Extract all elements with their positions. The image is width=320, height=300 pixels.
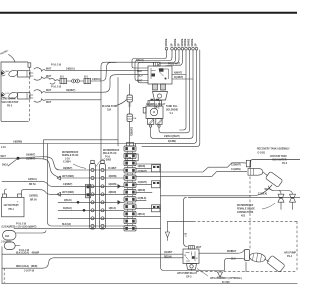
svg-text:SOLENOID: SOLENOID [166, 110, 178, 112]
arrow symbol on feed [165, 232, 169, 238]
harness bundle wire 4 [136, 50, 197, 143]
FS-3 signal wire down-left [247, 185, 272, 196]
svg-text:B-1790: B-1790 [222, 282, 230, 284]
svg-text:C1(BLK): C1(BLK) [258, 194, 267, 196]
svg-text:APS ASSEMBLY (OPTIONAL): APS ASSEMBLY (OPTIONAL) [210, 277, 242, 280]
svg-text:TB-1: TB-1 [128, 158, 134, 160]
bottom border line [2, 283, 298, 285]
aps tank box left edge [184, 201, 188, 247]
svg-text:SP: SP [196, 43, 198, 47]
svg-text:14(BLU): 14(BLU) [66, 67, 75, 70]
solenoid output wires [151, 127, 155, 138]
svg-text:HOT (RED): HOT (RED) [62, 192, 74, 194]
svg-text:RED(4): RED(4) [164, 255, 172, 258]
svg-text:16 WHT: 16 WHT [108, 168, 117, 170]
svg-text:VACUUM TANK: VACUUM TANK [270, 155, 287, 158]
aps tank box top edge [188, 196, 300, 198]
APS dashed enclosure top [168, 221, 194, 232]
svg-text:12(BLU): 12(BLU) [28, 179, 37, 181]
svg-text:IN-LINE FUSE: IN-LINE FUSE [102, 106, 118, 108]
diode symbol under relay [218, 272, 223, 277]
terminal block strip TB-1 [127, 143, 134, 147]
svg-text:4(RED): 4(RED) [138, 189, 146, 192]
right side row wires from TB-1 [136, 163, 247, 217]
wire motor2 rising to relay [46, 75, 149, 93]
right stub plug blocks [152, 165, 161, 212]
svg-text:21(WHT): 21(WHT) [138, 171, 148, 173]
APS dashed enclosure bottom [196, 271, 297, 273]
svg-text:12V BATTERY: 12V BATTERY [4, 204, 20, 207]
svg-text:18(WHT): 18(WHT) [63, 168, 73, 170]
main +12V feed wire [14, 227, 161, 229]
svg-text:11(WHT): 11(WHT) [138, 182, 147, 184]
in-line fuse chain [129, 84, 131, 95]
vacuum motor enclosure box PS-2 [1, 62, 28, 121]
strip row wires across plugs [90, 170, 125, 226]
battery negative lead down [5, 189, 7, 194]
svg-text:15(RED): 15(RED) [29, 196, 38, 198]
battery positive wire [22, 190, 90, 195]
wire 14(BRN) to terminal strip [0, 144, 136, 147]
svg-text:J-16: J-16 [65, 158, 70, 160]
svg-text:26GA: 26GA [2, 164, 8, 167]
wire curving from below to relay top level [101, 62, 154, 160]
wire 12(BLU) [2, 181, 90, 186]
relay CR-2 mount tab [153, 92, 168, 101]
spade connector wires [269, 186, 293, 194]
svg-text:HIGH WATER: HIGH WATER [272, 158, 287, 161]
pump drop wire [245, 262, 247, 272]
svg-text:14(WHT): 14(WHT) [63, 183, 73, 186]
circuit breaker stadium [3, 231, 17, 241]
svg-text:SPARE: SPARE [181, 38, 184, 46]
svg-text:9(GRN): 9(GRN) [109, 184, 117, 186]
spade crescents motor 1 [34, 68, 46, 72]
svg-text:LOW WATER: LOW WATER [2, 98, 16, 101]
svg-text:WHT: WHT [231, 251, 237, 253]
svg-text:24(BLU)(WHT): 24(BLU)(WHT) [164, 135, 180, 138]
svg-text:PS-2: PS-2 [7, 106, 13, 108]
svg-text:SP: SP [172, 43, 174, 47]
wire motor2 lower to plug vertical [46, 99, 102, 101]
wire branch down to row 226 [48, 144, 61, 227]
svg-text:APS PUMP RELAY: APS PUMP RELAY [177, 272, 198, 275]
svg-text:WHT: WHT [46, 68, 52, 70]
svg-text:FS-4: FS-4 [287, 255, 293, 258]
TB-1 label box [126, 154, 138, 161]
svg-text:GENERAL RELAY: GENERAL RELAY [146, 103, 166, 106]
svg-text:40A: 40A [5, 235, 10, 238]
comb feeds to relay top [158, 59, 179, 66]
spade connectors [278, 194, 296, 209]
svg-text:16(WHT): 16(WHT) [26, 155, 36, 157]
node junction dot [17, 157, 20, 160]
svg-text:4(WHT): 4(WHT) [174, 72, 182, 75]
svg-text:BLK: BLK [231, 259, 236, 261]
svg-text:SPARE: SPARE [174, 38, 177, 46]
wire branch upper [44, 140, 119, 159]
svg-text:P-16 J-16: P-16 J-16 [51, 87, 62, 89]
left stub wires into strip A [58, 202, 90, 226]
svg-text:APS PUMP: APS PUMP [284, 252, 296, 255]
svg-text:2(BLK): 2(BLK) [138, 214, 146, 216]
svg-text:15A: 15A [107, 109, 112, 112]
svg-text:4X2: 4X2 [241, 215, 246, 218]
svg-text:SP: SP [179, 43, 181, 47]
fuse box B-3 [60, 78, 67, 83]
harness bundle wire 2 [164, 50, 190, 133]
spade pair 3 (mid chain) [50, 79, 60, 81]
svg-text:WHT: WHT [46, 102, 52, 104]
wire WHT from left [0, 157, 18, 159]
svg-text:RECOVERY TANK ASSEMBLY: RECOVERY TANK ASSEMBLY [257, 148, 290, 151]
svg-text:FEMALE SPADE: FEMALE SPADE [237, 208, 255, 211]
svg-text:J-16 P-16: J-16 P-16 [24, 271, 35, 273]
comb pins [165, 47, 198, 61]
svg-text:BLU: BLU [138, 76, 143, 78]
branch wire 16(WHT) [18, 157, 90, 170]
harness bundle wire 5 (outer) [142, 50, 200, 147]
relay right output wires [172, 74, 186, 76]
svg-text:21(WHT): 21(WHT) [26, 158, 36, 160]
svg-text:31(BLK): 31(BLK) [138, 198, 147, 200]
wire leader from SIGNAL label [9, 55, 16, 62]
svg-text:2(BLK): 2(BLK) [64, 200, 72, 202]
relay CR-2 internals [151, 68, 169, 79]
svg-text:G-1051: G-1051 [258, 153, 266, 155]
svg-text:1(RED): 1(RED) [138, 166, 146, 168]
svg-text:4(ORN): 4(ORN) [109, 175, 117, 178]
wire motor1 lower to fuse chain [46, 78, 51, 80]
svg-text:SPARE: SPARE [184, 38, 187, 46]
relay CR-2 lower tabs [153, 84, 158, 90]
svg-text:P-16 J-16: P-16 J-16 [51, 64, 62, 66]
svg-text:CR-3: CR-3 [186, 277, 192, 279]
float switch FS-3 [265, 171, 283, 187]
harness bundle wire 1 [180, 50, 187, 130]
recovery tank box top edge [250, 160, 300, 169]
tank fill solenoid V-1 [148, 101, 162, 107]
svg-text:SPARE: SPARE [191, 38, 194, 46]
svg-text:MALE PLUG: MALE PLUG [103, 152, 117, 155]
svg-text:WATERPROOF: WATERPROOF [62, 151, 79, 154]
svg-text:1(BLK): 1(BLK) [109, 208, 117, 210]
svg-text:2(RED): 2(RED) [109, 192, 117, 194]
svg-text:15(RED): 15(RED) [130, 127, 132, 136]
branch wire 21(WHT) [18, 159, 90, 179]
comb fan to relay left [132, 56, 167, 68]
svg-text:SPARE: SPARE [188, 38, 191, 46]
connector strip B (P-16 male) [100, 164, 106, 230]
svg-text:C-3804: C-3804 [63, 161, 71, 164]
svg-text:18(WHT): 18(WHT) [66, 90, 76, 92]
inline connector (cigar) 2 [8, 91, 19, 100]
svg-text:14(BLU): 14(BLU) [92, 78, 101, 81]
battery PB-1 [2, 197, 25, 217]
svg-text:WHT: WHT [46, 90, 52, 92]
svg-text:(C)WHT: (C)WHT [164, 252, 173, 254]
svg-text:VACUUM STOP: VACUUM STOP [2, 101, 19, 104]
svg-text:WHT: WHT [196, 247, 202, 249]
svg-text:SPARE: SPARE [165, 38, 168, 46]
relay CR-2 box [148, 66, 172, 84]
FS-4 connector pin housing [245, 250, 250, 261]
harness bundle wire 3 [156, 50, 194, 138]
svg-text:HOT (RED): HOT (RED) [62, 176, 74, 178]
FS-3 connector pin housing [246, 160, 250, 167]
APS dashed enclosure right [296, 221, 298, 271]
vertical wire x=118 [117, 78, 119, 147]
svg-text:FEMALE PLUG: FEMALE PLUG [62, 154, 79, 157]
svg-text:PB-1: PB-1 [9, 209, 15, 211]
svg-text:14(BRN): 14(BRN) [13, 140, 22, 143]
APS internal dashed divider [249, 177, 251, 250]
plug label leaders [73, 159, 103, 169]
svg-text:WHT: WHT [1, 156, 7, 158]
FS-3 bullet connector [248, 168, 263, 175]
svg-text:BR 5A: BR 5A [29, 183, 36, 186]
svg-text:WATERPROOF: WATERPROOF [237, 204, 254, 207]
breaker loop wires [16, 231, 46, 234]
svg-text:86: 86 [184, 255, 186, 257]
vertical feed to pump relay [161, 164, 246, 271]
svg-text:11(WHT): 11(WHT) [174, 77, 183, 79]
svg-text:TANK FILL: TANK FILL [166, 105, 178, 108]
svg-text:C-3805: C-3805 [104, 160, 112, 162]
svg-text:31(BLK): 31(BLK) [63, 208, 72, 210]
relay output to pump [199, 250, 245, 254]
svg-text:J-16: J-16 [1, 147, 6, 149]
svg-text:BLK (12GA) 40AMP: BLK (12GA) 40AMP [16, 251, 40, 254]
float switch FS-4 [267, 255, 286, 272]
svg-text:FS-3: FS-3 [282, 163, 288, 165]
svg-text:WHT: WHT [265, 189, 271, 191]
FS-4 oval connector [249, 252, 266, 263]
svg-text:J-16 BLU: J-16 BLU [1, 242, 11, 244]
connector strip A (J-16 female) [90, 164, 96, 230]
top border line [0, 12, 297, 14]
branch to ground lug [8, 158, 18, 166]
connector circles [72, 79, 76, 83]
APS pump relay CR-3 [183, 249, 199, 264]
spade crescents motor 2 [34, 90, 46, 94]
wire motor1 to relay [46, 69, 149, 71]
svg-text:P-16: P-16 [105, 156, 111, 158]
wire RED return [2, 258, 183, 268]
wire BLK 40AMP [2, 253, 183, 255]
svg-text:C2(WHT): C2(WHT) [231, 165, 241, 167]
svg-text:BLK(14): BLK(14) [62, 223, 71, 226]
svg-text:WATERPROOF: WATERPROOF [103, 149, 120, 152]
svg-text:BR 5A: BR 5A [30, 199, 37, 202]
svg-text:C1(GRN): C1(GRN) [231, 169, 241, 171]
svg-text:RED (12GA) (RED): RED (12GA) (RED) [16, 265, 38, 268]
motor terminal 1 [2, 71, 5, 77]
relay CR-3 mount tab [187, 264, 197, 270]
svg-text:CONNECTORS: CONNECTORS [237, 212, 254, 214]
svg-text:9(GRN): 9(GRN) [168, 141, 176, 143]
left feed vertical [1, 247, 3, 284]
svg-text:(12GA)(RED) +12V (12GA)(WHT): (12GA)(RED) +12V (12GA)(WHT) [2, 225, 37, 228]
inline connector (cigar) 1 [8, 69, 19, 78]
fuse box B-3 second [84, 78, 91, 83]
svg-text:WHT: WHT [46, 76, 52, 78]
svg-text:30: 30 [196, 258, 198, 260]
motor terminal 2 [2, 93, 5, 99]
